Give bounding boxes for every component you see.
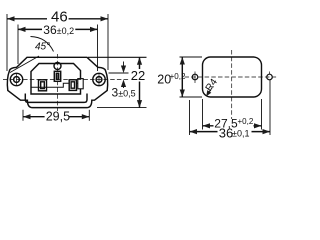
dim 20 line: [181, 57, 183, 97]
svg-text:+0,2: +0,2: [238, 117, 254, 126]
svg-text:29,5: 29,5: [46, 109, 70, 123]
dim 36 cutout line: [190, 131, 271, 133]
right mounting hole: [93, 73, 105, 85]
earth pin: [54, 71, 60, 81]
body step contour: [25, 94, 87, 103]
cutout rounded rectangle: [203, 57, 262, 97]
dim 27.5 right arrow: [254, 123, 262, 128]
dim 29.5 left arrow: [23, 114, 31, 119]
label 36 +-0,1: [218, 129, 252, 139]
dim 29.5 line: [23, 116, 89, 118]
dim 3 down arrow: [121, 66, 126, 74]
dim 36 left extension line: [17, 25, 19, 65]
dim 29.5 left extension line: [22, 110, 24, 121]
dim 20 top arrow: [180, 57, 185, 65]
dim 27.5 left arrow: [203, 123, 211, 128]
dim 22 bottom arrow: [137, 100, 142, 108]
dim 20 top extension line: [180, 56, 203, 58]
horizontal centerline left figure: [3, 79, 129, 81]
svg-text:22: 22: [131, 68, 145, 83]
earth pin hole circle: [54, 63, 61, 70]
dim 46 right extension line: [107, 14, 109, 70]
dim 27.5 line: [203, 125, 262, 127]
side notch on recess wall: [78, 79, 83, 89]
connector flange outer outline: [7, 57, 107, 107]
R4 leader arrow: [208, 88, 213, 95]
label 29,5: [46, 111, 69, 122]
recess floor ledge line: [31, 83, 78, 87]
vertical centerline left figure: [57, 54, 59, 121]
chamfer 45 deg extension line: [10, 56, 39, 73]
dim 36 left arrow: [18, 27, 26, 32]
dim 22 top extension line: [88, 56, 147, 58]
dim 22 bottom extension line: [97, 107, 147, 109]
dim 20 bottom extension line: [180, 96, 203, 98]
cutout right screw hole: [267, 74, 273, 80]
svg-text:R4: R4: [204, 77, 221, 94]
dim 46 right arrow: [101, 16, 109, 21]
dim 29.5 right arrow: [82, 114, 90, 119]
svg-text:±0,1: ±0,1: [232, 129, 249, 139]
horizontal centerline right figure: [185, 76, 278, 78]
dim 22 top arrow: [137, 57, 142, 65]
svg-text:36±0,2: 36±0,2: [43, 23, 74, 37]
vertical centerline right figure: [231, 50, 233, 121]
svg-text:45°: 45°: [35, 41, 50, 52]
dim 22 line: [139, 57, 141, 107]
neutral pin: [69, 80, 76, 91]
label 36 +-0.2: [43, 26, 73, 35]
dim 36 cutout left arrow: [190, 129, 198, 134]
recess opening: [31, 64, 81, 95]
dim 36 right arrow: [90, 27, 98, 32]
label 27,5 +0,2: [214, 119, 254, 129]
label 22: [131, 70, 145, 81]
dim 3 up arrow: [121, 80, 126, 88]
dim 36 cutout left extension line: [189, 100, 191, 135]
dim 46 left extension line: [6, 14, 8, 71]
svg-text:3±0,5: 3±0,5: [112, 85, 136, 99]
dim 36 line: [18, 28, 98, 30]
dim 27.5 left extension line: [202, 99, 204, 130]
dim 46 left arrow: [7, 16, 15, 21]
dim 36 cutout right arrow: [263, 129, 271, 134]
cutout left screw hole: [192, 74, 198, 80]
dim 3 top reference line: [109, 72, 129, 74]
line pin: [39, 80, 47, 91]
dim 36 cutout right extension line: [269, 80, 271, 135]
svg-text:+0,2: +0,2: [170, 72, 186, 81]
dim 20 bottom arrow: [180, 90, 185, 98]
dim 36 right extension line: [97, 25, 99, 72]
dim 29.5 right extension line: [88, 110, 90, 121]
dim 46 line: [7, 18, 108, 20]
dim 27.5 right extension line: [261, 99, 263, 130]
45 deg angle arc: [31, 37, 54, 52]
left mounting hole: [10, 73, 22, 85]
